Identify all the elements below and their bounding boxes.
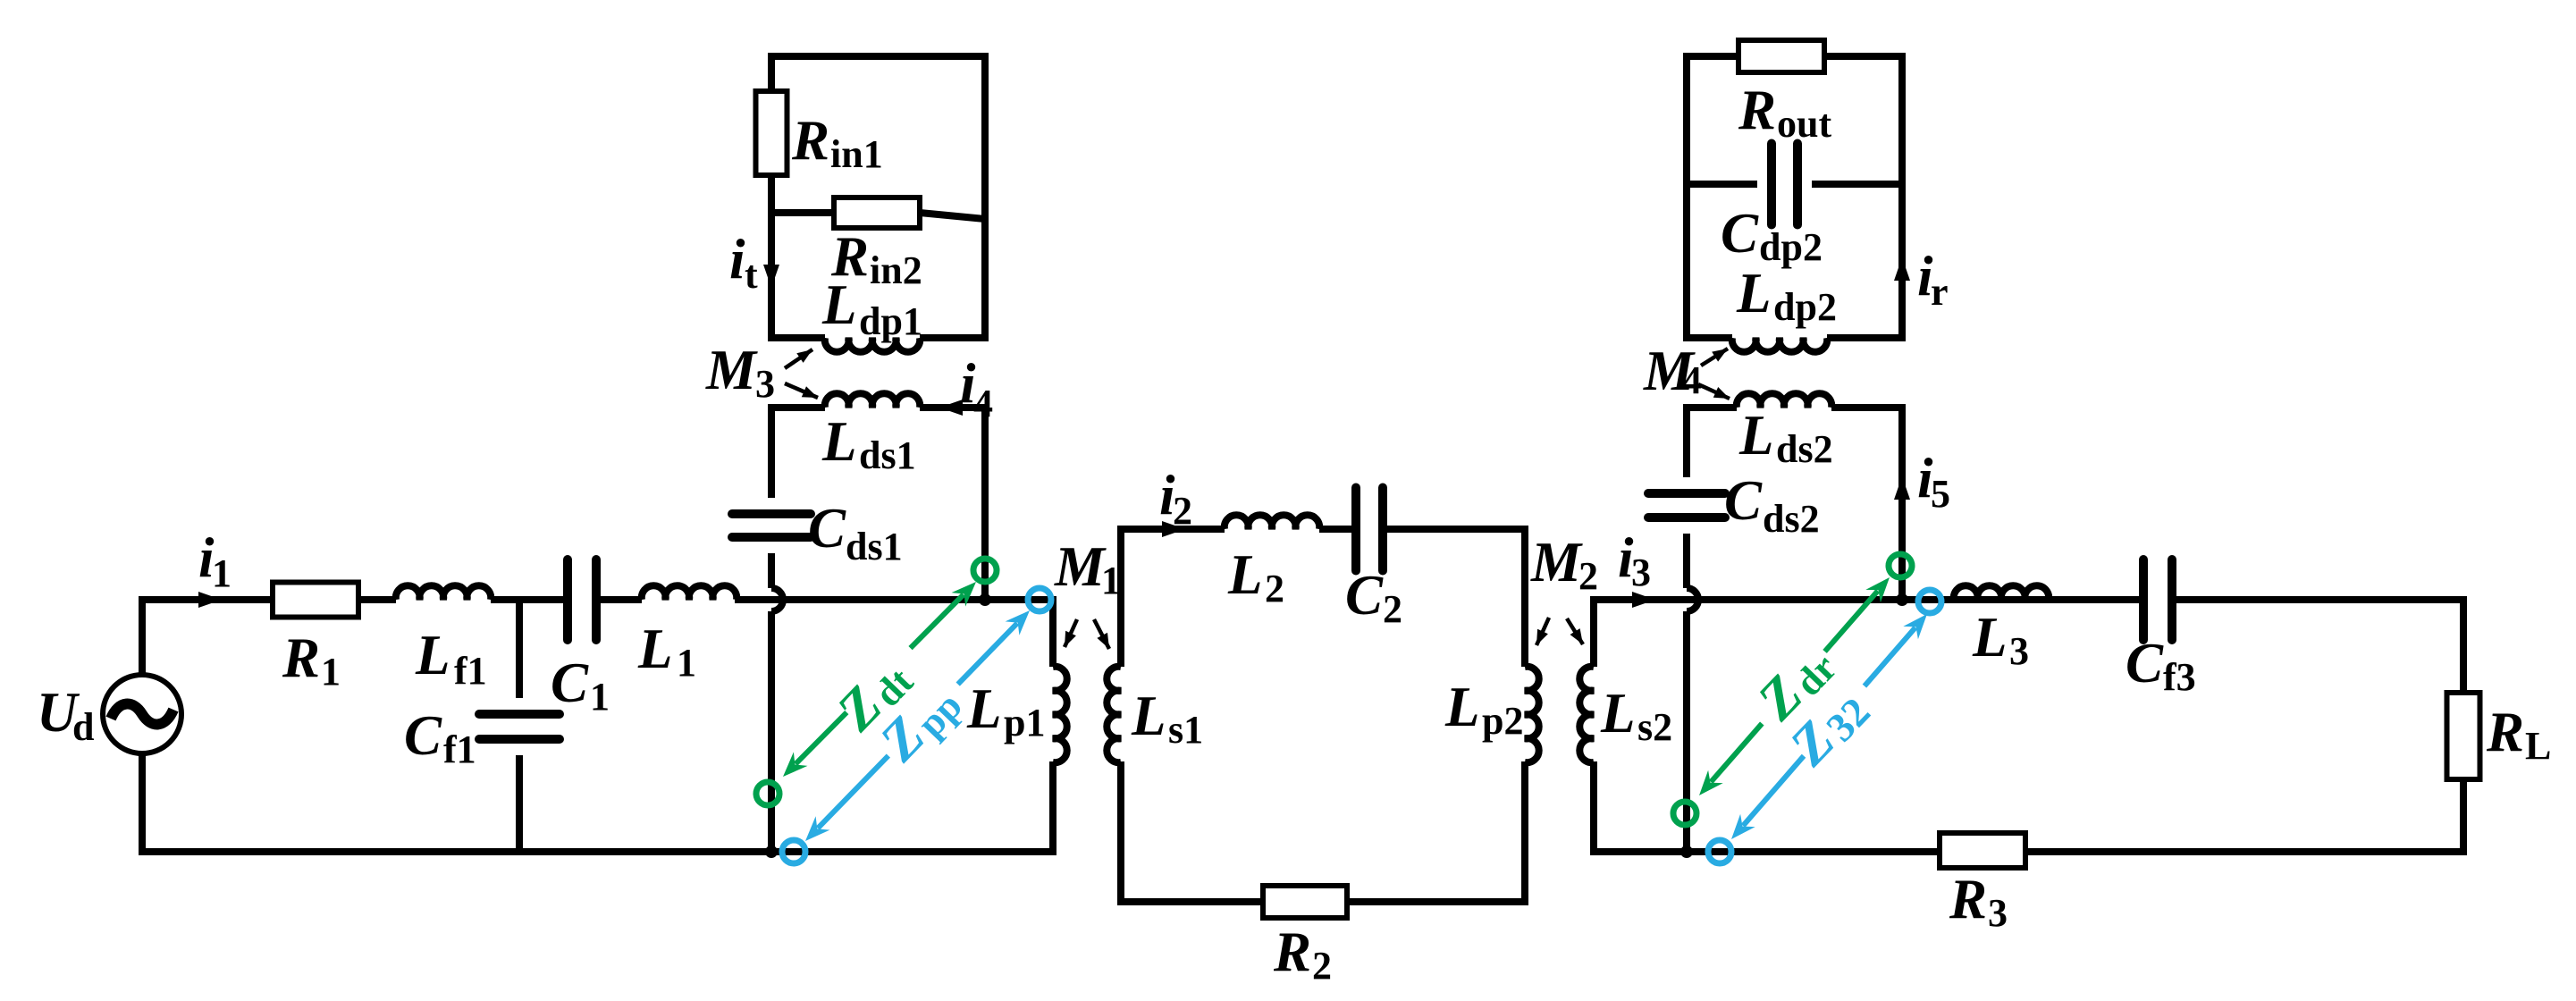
svg-text:C: C <box>1724 469 1763 532</box>
svg-text:3: 3 <box>2009 629 2029 673</box>
svg-text:R: R <box>1273 921 1311 983</box>
svg-text:R: R <box>2486 701 2524 763</box>
svg-text:L: L <box>1972 606 2007 669</box>
svg-text:1: 1 <box>677 641 696 685</box>
svg-text:2: 2 <box>1312 944 1332 988</box>
svg-text:L: L <box>1227 543 1262 606</box>
svg-text:1: 1 <box>321 650 341 694</box>
svg-text:R: R <box>1738 79 1776 141</box>
svg-text:C: C <box>1721 202 1759 265</box>
svg-text:dp1: dp1 <box>859 299 922 343</box>
svg-text:in2: in2 <box>870 248 922 292</box>
svg-text:ds2: ds2 <box>1776 427 1833 471</box>
svg-text:ds2: ds2 <box>1763 497 1820 541</box>
svg-text:2: 2 <box>1578 554 1598 598</box>
svg-text:p1: p1 <box>1004 701 1045 744</box>
svg-text:R: R <box>791 109 829 172</box>
svg-text:i: i <box>729 228 745 290</box>
svg-text:5: 5 <box>1931 472 1950 516</box>
svg-text:C: C <box>551 652 589 714</box>
svg-text:d: d <box>72 705 94 749</box>
svg-text:L: L <box>637 618 672 680</box>
svg-text:dp2: dp2 <box>1773 285 1837 329</box>
svg-text:M: M <box>705 339 758 401</box>
svg-text:L: L <box>1444 676 1479 738</box>
svg-text:C: C <box>2126 632 2164 694</box>
svg-text:2: 2 <box>1173 489 1192 533</box>
svg-text:M: M <box>1054 535 1107 598</box>
svg-text:3: 3 <box>1988 891 2008 935</box>
svg-text:L: L <box>1131 685 1166 747</box>
svg-text:s1: s1 <box>1168 708 1203 752</box>
svg-text:3: 3 <box>755 362 775 406</box>
svg-text:2: 2 <box>1383 587 1402 631</box>
svg-text:L: L <box>1738 404 1773 467</box>
svg-text:s2: s2 <box>1637 705 1672 749</box>
svg-text:4: 4 <box>1682 358 1702 402</box>
svg-text:R: R <box>282 627 320 689</box>
svg-text:L: L <box>1736 262 1771 324</box>
svg-text:L: L <box>1600 682 1635 744</box>
svg-text:L: L <box>821 410 856 473</box>
svg-text:3: 3 <box>1631 551 1651 594</box>
svg-text:in1: in1 <box>830 132 883 176</box>
svg-text:C: C <box>1345 564 1384 627</box>
svg-text:L: L <box>821 273 856 336</box>
svg-text:f1: f1 <box>454 649 487 693</box>
svg-text:f3: f3 <box>2163 655 2196 699</box>
svg-text:f1: f1 <box>443 728 476 771</box>
svg-text:L: L <box>415 624 450 686</box>
svg-text:C: C <box>808 497 846 559</box>
svg-text:1: 1 <box>1101 559 1121 602</box>
svg-text:L: L <box>2525 724 2551 768</box>
svg-text:ds1: ds1 <box>846 525 903 568</box>
svg-text:dp2: dp2 <box>1759 225 1823 269</box>
svg-text:2: 2 <box>1265 567 1284 610</box>
svg-text:out: out <box>1777 102 1831 146</box>
svg-text:1: 1 <box>212 551 232 595</box>
svg-text:1: 1 <box>590 675 610 719</box>
svg-text:ds1: ds1 <box>859 433 916 477</box>
svg-text:p2: p2 <box>1482 699 1523 743</box>
svg-text:R: R <box>1949 868 1987 930</box>
svg-text:M: M <box>1530 531 1583 593</box>
svg-text:4: 4 <box>973 382 993 425</box>
svg-text:C: C <box>404 704 442 767</box>
svg-text:r: r <box>1931 270 1949 314</box>
svg-text:t: t <box>745 253 758 297</box>
svg-text:L: L <box>966 677 1001 740</box>
